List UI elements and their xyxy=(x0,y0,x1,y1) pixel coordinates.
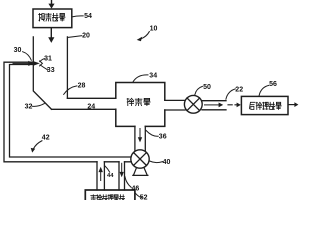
svg-text:33: 33 xyxy=(47,67,55,74)
drop pipe 46 to tank xyxy=(119,162,125,190)
svg-text:20: 20 xyxy=(82,33,90,40)
channel 24 bottom wall xyxy=(52,108,116,110)
outlet arrow from box 56 xyxy=(288,104,294,106)
svg-text:22: 22 xyxy=(235,86,243,93)
up arrow in pipe 44 xyxy=(100,172,102,181)
drop pipe 44 to tank xyxy=(97,162,104,190)
box label text 后处理装置 xyxy=(249,102,281,109)
duct right wall 20/28 xyxy=(66,37,68,98)
svg-text:30: 30 xyxy=(14,47,22,54)
demister vessel 34 outline with port gaps xyxy=(116,83,165,127)
pump 40 stand xyxy=(133,168,148,176)
duct left wall + sloped bottom 32 xyxy=(33,37,51,109)
leader 34 xyxy=(133,75,148,82)
outlet pipe 22 xyxy=(202,101,226,110)
leader 28 xyxy=(64,86,77,95)
leader 10 curved arrow xyxy=(141,32,150,39)
svg-text:46: 46 xyxy=(132,186,140,193)
leader 44 xyxy=(105,166,110,173)
pipe demister to blower 50 xyxy=(165,100,185,110)
box: liquid storage tank (bottom, clipped) xyxy=(85,190,135,203)
svg-text:44: 44 xyxy=(107,173,114,179)
svg-text:54: 54 xyxy=(84,13,92,20)
svg-text:50: 50 xyxy=(203,84,211,91)
pump 40 circle xyxy=(131,150,149,168)
leader 50 xyxy=(195,86,203,95)
svg-text:31: 31 xyxy=(44,55,52,62)
svg-text:32: 32 xyxy=(25,103,33,110)
svg-text:40: 40 xyxy=(163,159,171,166)
svg-text:52: 52 xyxy=(140,195,148,200)
dashed stream arrow 22 to box 56 xyxy=(228,104,238,106)
leader 40 xyxy=(150,161,163,163)
box: post-treatment 后处理装置 (56) xyxy=(241,96,288,114)
pipe 36 demister to pump xyxy=(135,126,145,150)
leader 31 xyxy=(40,59,45,62)
pump 40 X cross xyxy=(134,153,147,166)
leader 46 xyxy=(125,177,131,188)
demister label text 除雾器 xyxy=(127,98,150,105)
down arrow in pipe 46 xyxy=(121,163,123,172)
spray flow arrow 30 xyxy=(13,62,29,64)
svg-text:36: 36 xyxy=(159,133,167,140)
svg-text:24: 24 xyxy=(87,104,95,111)
leader 30 xyxy=(23,52,32,61)
leader 56 xyxy=(259,85,269,96)
recirculation riser + spray pipe outer wall xyxy=(4,62,131,162)
bottom box label text (clipped) xyxy=(91,195,125,202)
arrow preheater to duct xyxy=(50,28,52,38)
svg-text:10: 10 xyxy=(150,25,158,32)
down arrow in pipe 36 xyxy=(139,129,141,138)
feed gas arrow into preheater xyxy=(51,0,53,4)
leader 42 curved arrow xyxy=(33,141,42,149)
leader 22 xyxy=(226,89,235,99)
leader 54 xyxy=(72,16,83,17)
svg-text:42: 42 xyxy=(42,134,50,141)
recirculation riser + spray pipe inner wall xyxy=(10,65,132,158)
leader 36 xyxy=(146,130,158,136)
channel 24 top wall xyxy=(67,97,115,99)
blower 50 X cross xyxy=(187,98,200,111)
flow arrow in outlet pipe xyxy=(205,104,219,106)
box: preheater 预热装置 (54) xyxy=(33,9,72,28)
leader 20 xyxy=(68,36,82,38)
svg-text:34: 34 xyxy=(149,72,157,79)
leader 33 xyxy=(40,65,47,70)
box label text 预热装置 xyxy=(39,13,65,21)
svg-text:56: 56 xyxy=(269,81,277,88)
blower 50 circle xyxy=(184,95,202,113)
spray nozzle 31/33 xyxy=(34,61,40,65)
leader 52 (clipped) xyxy=(136,193,142,197)
svg-text:28: 28 xyxy=(78,82,86,89)
leader 32 xyxy=(32,104,44,107)
